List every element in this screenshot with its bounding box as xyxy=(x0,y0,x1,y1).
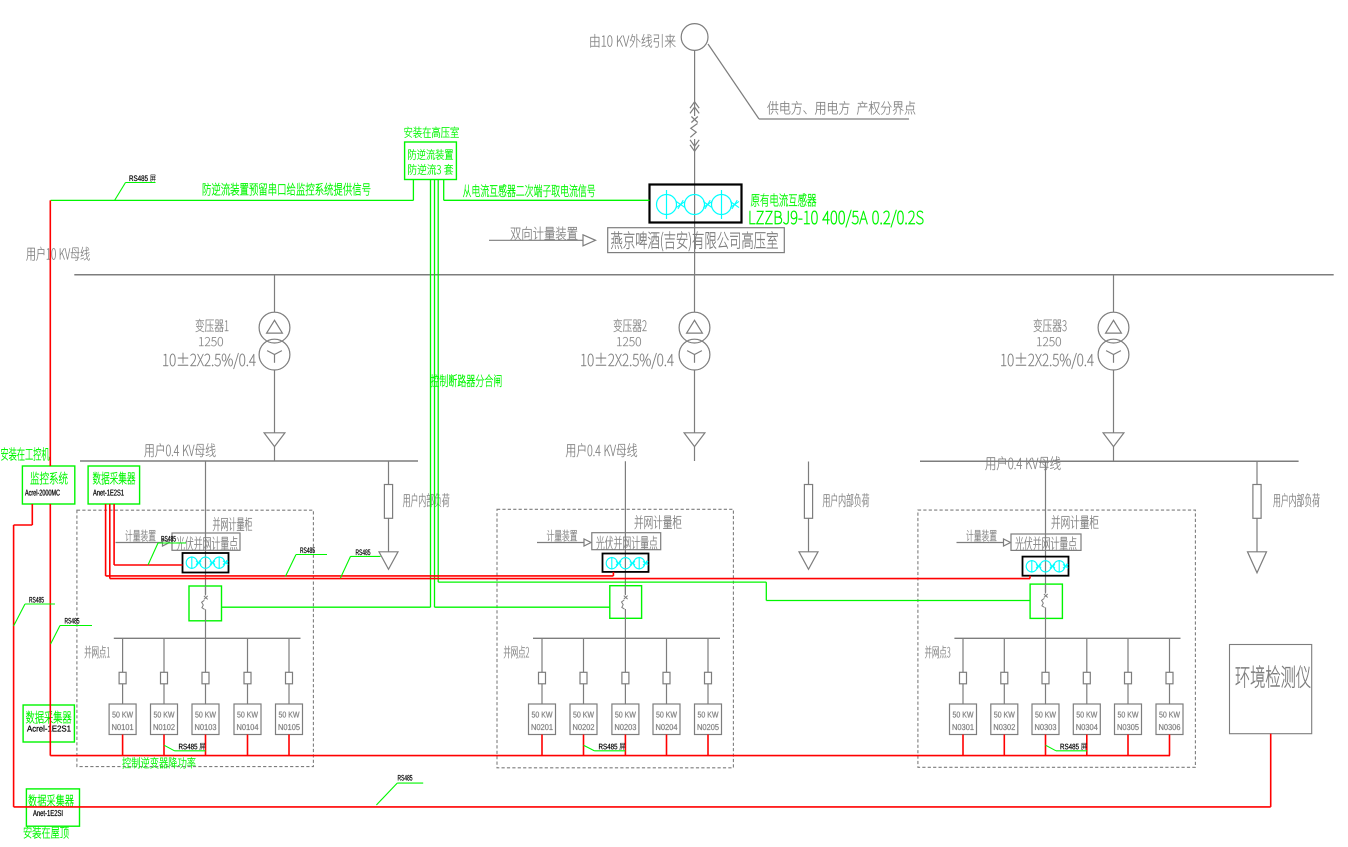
bus 用户10 KV母线 xyxy=(74,274,1333,276)
fuse FU N0305 xyxy=(1125,672,1132,684)
wire inverter feeder N0104 xyxy=(247,638,249,672)
inverter N0103 50 KW xyxy=(192,704,219,735)
wire red RS485 line B to CT3 xyxy=(110,578,1030,580)
box 光伏并网计量点 #1 xyxy=(172,533,240,550)
bus 用户0.4 KV母线 #1 xyxy=(80,460,418,462)
arrow 计量装置 #3 xyxy=(957,542,1004,544)
label 安装在工控机 xyxy=(1,447,49,460)
label inverter N0103 rating/id xyxy=(195,712,216,718)
label 光伏并网计量点 #1 xyxy=(176,536,237,550)
cabinet 并网计量柜 #1 (dashed) xyxy=(77,510,314,766)
CT TA1 phase A symbol xyxy=(657,195,677,215)
label inverter N0105 rating/id xyxy=(279,712,300,718)
fuse FU N0203 xyxy=(622,672,629,684)
label inverter N0305 rating/id xyxy=(1118,712,1139,718)
label 变压器2 xyxy=(614,319,647,332)
label 变压器1 xyxy=(196,319,229,332)
label 环境检测仪 xyxy=(1236,666,1311,688)
label T1 10±2X2.5%/0.4 xyxy=(163,353,255,369)
breaker QF1 switch symbol xyxy=(205,586,207,595)
wire main 10kV incoming drop xyxy=(694,50,696,116)
label Acrel-1E2S1 #2 xyxy=(27,725,71,731)
label 计量装置 #2 xyxy=(547,530,577,542)
label 并网计量柜 #1 xyxy=(213,517,252,531)
callout RS485 xyxy=(148,543,158,565)
circuit breaker QF1 (green box) xyxy=(189,586,222,621)
label 数据采集器 #2 xyxy=(26,711,71,724)
inverter N0205 50 KW xyxy=(695,704,722,735)
wire RS485 drop inverter N0306 xyxy=(1169,735,1171,756)
inverter N0305 50 KW xyxy=(1115,704,1142,735)
inverter N0302 50 KW xyxy=(991,704,1018,735)
box 数据采集器 #1 Anet-1E2S1 xyxy=(88,466,140,504)
inverter N0105 50 KW xyxy=(276,704,303,735)
wire inverter feeder N0201 xyxy=(541,638,543,672)
label Acrel-2000MC xyxy=(25,489,60,495)
fuse FU N0103 xyxy=(202,672,209,684)
inverter N0201 50 KW xyxy=(529,704,556,735)
box 燕京啤酒(吉安)有限公司高压室 xyxy=(608,228,785,253)
breaker QF3 switch symbol xyxy=(1045,584,1047,593)
label 数据采集器 #1 xyxy=(93,472,135,485)
fuse FU N0102 xyxy=(161,672,168,684)
CT TA1 phase B symbol xyxy=(685,195,705,215)
inverter N0304 50 KW xyxy=(1073,704,1100,735)
callout RS485 xyxy=(14,604,25,626)
label inverter N0104 rating/id xyxy=(237,712,258,718)
wire 0.4kV feeder drop group 2 xyxy=(624,461,626,593)
load 用户内部负荷 feeder xyxy=(808,462,810,485)
wire inverter feeder N0302 xyxy=(1003,638,1005,672)
callout RS485 xyxy=(376,783,397,805)
callout RS485 xyxy=(1046,745,1057,751)
wire RS485 drop inverter N0101 xyxy=(122,735,124,756)
arrow load down xyxy=(1248,552,1267,573)
wire red RS485 line A to CT2 xyxy=(106,575,614,577)
wire inverter feeder N0303 xyxy=(1045,638,1047,672)
label Anet-1E2SI #3 xyxy=(33,810,62,816)
label 防逆流装置 xyxy=(408,149,453,160)
cabinet 并网计量柜 #3 (dashed) xyxy=(918,510,1196,767)
inverter N0202 50 KW xyxy=(570,704,597,735)
CT TA1 phase C symbol xyxy=(712,195,732,215)
current transformer TA1 box (existing CT) xyxy=(650,185,742,223)
box 光伏并网计量点 #3 xyxy=(1011,534,1081,550)
wire inverter feeder N0204 xyxy=(666,638,668,672)
fuse FU N0303 xyxy=(1042,672,1049,684)
box 监控系统 Acrel-2000MC xyxy=(22,466,74,504)
label inverter N0204 rating/id xyxy=(656,712,677,718)
label 从电流互感器二次端子取电流信号 xyxy=(463,184,595,197)
arrow load down xyxy=(379,552,398,570)
fuse FU N0306 xyxy=(1166,672,1173,684)
label 燕京啤酒(吉安)有限公司高压室 xyxy=(611,231,778,251)
label 计量装置 #1 xyxy=(125,530,155,542)
load 用户内部负荷 feeder xyxy=(388,461,390,485)
label 防逆流装置预留串口给监控系统提供信号 xyxy=(203,183,370,196)
box 数据采集器 #3 Anet-1E2S1 (roof) xyxy=(26,789,79,826)
callout RS485 xyxy=(51,626,60,645)
callout RS485 xyxy=(115,183,126,201)
wire RS485 drop inverter N0203 xyxy=(624,735,626,756)
fuse FU N0204 xyxy=(663,672,670,684)
wire RS485 drop inverter N0105 xyxy=(288,735,290,756)
box 光伏并网计量点 #2 xyxy=(592,533,661,550)
wire red verticals from 数据采集器#1 xyxy=(105,504,107,576)
breaker QF2 switch symbol xyxy=(624,586,626,595)
label 光伏并网计量点 #3 xyxy=(1015,537,1076,551)
label 安装在高压室 xyxy=(404,127,458,138)
label 用户0.4 KV母线 #1 xyxy=(144,443,215,457)
wire 0.4kV feeder drop group 3 xyxy=(1045,461,1047,592)
label 计量装置 #3 xyxy=(966,530,996,542)
wire inverter feeder N0305 xyxy=(1127,638,1129,672)
label inverter N0102 rating/id xyxy=(154,712,175,718)
bus 用户0.4 KV母线 #3 xyxy=(920,460,1299,462)
label inverter N0201 rating/id xyxy=(532,712,553,718)
callout RS485 xyxy=(285,555,296,577)
circuit breaker QF3 (green box) xyxy=(1030,584,1062,618)
label 双向计量装置 xyxy=(511,226,578,240)
wire inverter feeder N0105 xyxy=(288,638,290,672)
wire breaker control line B (green vertical) xyxy=(434,180,436,608)
label 用户内部负荷 xyxy=(823,493,869,507)
label 并网点2 xyxy=(504,646,529,659)
label inverter N0101 rating/id xyxy=(112,712,133,718)
current transformer metering CT #1 xyxy=(183,553,229,573)
arrow 计量装置 #2 xyxy=(537,542,584,544)
wire RS485 drop inverter N0103 xyxy=(205,735,207,756)
label 用户0.4 KV母线 #2 (no line drawn in source) xyxy=(566,443,637,457)
wire inverter feeder N0205 xyxy=(707,638,709,672)
wire inverter feeder N0304 xyxy=(1086,638,1088,672)
label 控制逆变器降功率 xyxy=(122,757,195,768)
wire inverter feeder N0203 xyxy=(624,638,626,672)
label inverter N0306 rating/id xyxy=(1159,712,1180,718)
wire RS485 drop inverter N0202 xyxy=(583,735,585,756)
wire RS485 drop inverter N0301 xyxy=(962,735,964,756)
box 数据采集器 #2 xyxy=(23,705,74,742)
fuse FU N0304 xyxy=(1083,672,1090,684)
label inverter N0301 rating/id xyxy=(953,712,974,718)
wire red jog to left margin riser xyxy=(31,504,33,525)
transformer T3 (3) xyxy=(1113,275,1115,313)
wire RS485 drop inverter N0102 xyxy=(163,735,165,756)
fuse FU N0302 xyxy=(1001,672,1008,684)
label 并网点1 xyxy=(85,646,110,659)
wire inverter feeder N0103 xyxy=(205,638,207,672)
wire RS485 drop inverter N0204 xyxy=(666,735,668,756)
fuse FU N0301 xyxy=(960,672,967,684)
fuse FU N0101 xyxy=(119,672,126,684)
label inverter N0303 rating/id xyxy=(1035,712,1056,718)
label 并网点3 xyxy=(925,646,950,659)
callout RS485 xyxy=(584,745,595,751)
box 环境检测仪 environment monitor xyxy=(1230,645,1312,734)
fuse FU N0104 xyxy=(244,672,251,684)
wire CT signal line (green) xyxy=(443,180,445,201)
wire red riser from junction to 监控系统 xyxy=(49,200,51,466)
wire red riser to environment monitor xyxy=(1270,734,1272,807)
label T3 rating 1250 xyxy=(1037,337,1061,346)
arrow 双向计量装置 (bidirectional metering device) xyxy=(489,239,583,241)
load 用户内部负荷 feeder xyxy=(1256,461,1258,484)
wire RS485 drop inverter N0304 xyxy=(1086,735,1088,756)
callout RS485 xyxy=(340,556,350,578)
fuse FU N0105 xyxy=(286,672,293,684)
arrow transformer T3 output xyxy=(1103,433,1124,447)
label 原有电流互感器 xyxy=(751,193,816,206)
fuse FU N0202 xyxy=(580,672,587,684)
label 并网计量柜 #3 xyxy=(1052,515,1099,529)
label LZZBJ9-10 400/5A 0.2/0.2S xyxy=(750,210,924,227)
label 数据采集器 #3 xyxy=(29,794,74,807)
label 用户0.4 KV母线 #3 xyxy=(985,456,1060,470)
label T2 10±2X2.5%/0.4 xyxy=(581,353,673,369)
wire inverter feeder N0202 xyxy=(583,638,585,672)
label inverter N0203 rating/id xyxy=(615,712,636,718)
wire red RS485 to metering CT1 xyxy=(114,564,182,566)
inverter N0203 50 KW xyxy=(612,704,639,735)
wire red RS485 bottom trunk #2 xyxy=(14,806,1271,808)
current transformer metering CT #3 xyxy=(1023,557,1069,576)
label inverter N0202 rating/id xyxy=(573,712,594,718)
wire red RS485 inverter bus (bottom #1) xyxy=(50,755,1170,757)
wire inverter feeder N0102 xyxy=(163,638,165,672)
arrow 计量装置 #1 xyxy=(116,542,163,544)
wire RS485 drop inverter N0104 xyxy=(247,735,249,756)
transformer T1 (1) xyxy=(274,275,276,313)
disconnector/breaker QF chevrons (drawout symbol) xyxy=(690,102,699,108)
bus 并网点2 xyxy=(533,637,720,639)
label 安装在屋顶 xyxy=(24,826,69,838)
callout RS485 xyxy=(164,745,175,751)
fuse FU N0205 xyxy=(705,672,712,684)
inverter N0101 50 KW xyxy=(109,704,136,735)
inverter N0306 50 KW xyxy=(1156,704,1183,735)
wire inverter feeder N0301 xyxy=(962,638,964,672)
wire RS485 drop inverter N0205 xyxy=(707,735,709,756)
label T3 10±2X2.5%/0.4 xyxy=(1001,353,1093,369)
label 控制断路器分合闸 xyxy=(431,374,502,387)
wire inverter feeder N0101 xyxy=(122,638,124,672)
label 供电方、用电方 产权分界点 xyxy=(767,101,915,115)
transformer T2 (2) xyxy=(694,275,696,313)
inverter N0303 50 KW xyxy=(1032,704,1059,735)
label inverter N0302 rating/id xyxy=(994,712,1015,718)
bus 并网点3 xyxy=(954,637,1180,639)
wire red riser 监控系统 to collector #2 and bottom bus xyxy=(49,504,51,756)
wire RS485 drop inverter N0303 xyxy=(1045,735,1047,756)
arrow transformer T2 output xyxy=(684,433,705,447)
label 变压器3 xyxy=(1034,319,1067,332)
wire RS485 drop inverter N0305 xyxy=(1127,735,1129,756)
arrow transformer T1 output xyxy=(264,433,285,447)
label 用户10 KV母线 xyxy=(26,247,89,261)
label inverter N0205 rating/id xyxy=(698,712,719,718)
label 由10 KV外线引来 xyxy=(590,34,675,48)
label Anet-1E2S1 #1 xyxy=(93,490,124,496)
fuse FU N0201 xyxy=(539,672,546,684)
wire RS485 trunk to monitoring system (green) xyxy=(412,180,414,201)
label 防逆流3 套 xyxy=(408,164,453,175)
current transformer metering CT #2 xyxy=(603,554,649,572)
label T1 rating 1250 xyxy=(199,337,223,346)
node supply incoming circle (10kV overhead line) xyxy=(681,24,708,51)
circuit breaker QF2 (green box) xyxy=(610,586,642,619)
label T2 rating 1250 xyxy=(617,337,641,346)
label 并网计量柜 #2 xyxy=(635,515,682,529)
inverter N0102 50 KW xyxy=(151,704,178,735)
inverter N0104 50 KW xyxy=(234,704,261,735)
wire RS485 drop inverter N0201 xyxy=(541,735,543,756)
bus 并网点1 xyxy=(114,637,301,639)
callout property demarcation point xyxy=(708,44,759,119)
arrow load down xyxy=(799,552,818,570)
inverter N0301 50 KW xyxy=(950,704,977,735)
CT TA1 secondary terminal marks xyxy=(676,201,680,207)
label 用户内部负荷 xyxy=(1273,493,1319,507)
label 光伏并网计量点 #2 xyxy=(596,536,657,550)
inverter N0204 50 KW xyxy=(653,704,680,735)
wire breaker control line C (green vertical) xyxy=(437,180,439,583)
label inverter N0304 rating/id xyxy=(1077,712,1098,718)
wire inverter feeder N0306 xyxy=(1169,638,1171,672)
label 用户内部负荷 xyxy=(403,493,449,507)
cabinet 并网计量柜 #2 (dashed) xyxy=(497,509,733,768)
wire RS485 drop inverter N0302 xyxy=(1003,735,1005,756)
wire breaker control line A (green vertical) xyxy=(430,180,432,608)
wire 0.4kV feeder drop group 1 xyxy=(205,461,207,594)
box 防逆流装置 防逆流3套 xyxy=(405,142,457,180)
label 监控系统 xyxy=(30,472,67,485)
